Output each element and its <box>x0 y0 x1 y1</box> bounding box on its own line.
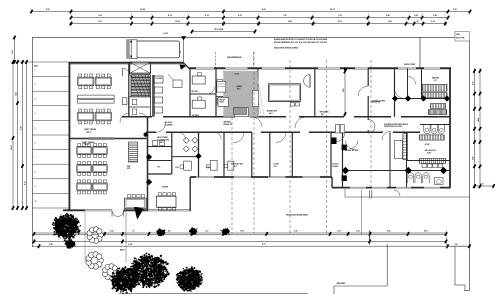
svg-text:3.48: 3.48 <box>49 243 52 246</box>
terrace connector <box>344 189 346 197</box>
dimension vertical top-left <box>12 36 15 64</box>
door arc office top right <box>122 68 130 76</box>
svg-text:58.2: 58.2 <box>160 142 163 144</box>
wall lobby right <box>257 68 259 117</box>
shrub S3 <box>220 228 230 235</box>
svg-text:INT RM 1: INT RM 1 <box>192 91 199 93</box>
wall right rooms v 407 <box>407 68 409 98</box>
label retail store <box>345 149 359 152</box>
svg-text:12.7: 12.7 <box>434 80 437 82</box>
window gap left wall <box>132 62 149 64</box>
board room table <box>268 84 300 106</box>
label specimen <box>320 112 330 117</box>
svg-text:MEET TEAMS: MEET TEAMS <box>84 128 97 131</box>
wall toilets h 170 <box>343 170 451 172</box>
entrance canopy edges dashed <box>216 52 254 69</box>
svg-text:6: 6 <box>35 142 36 144</box>
label specimen shelf corridor <box>384 124 409 128</box>
wall toilets h 160 <box>407 160 451 162</box>
svg-text:4.75: 4.75 <box>424 230 427 233</box>
svg-text:OFF 3: OFF 3 <box>84 144 89 146</box>
svg-text:2.35: 2.35 <box>356 231 359 233</box>
windows bottom right wall <box>350 187 440 188</box>
wall meet east <box>189 177 191 211</box>
svg-text:CLASSRM: CLASSRM <box>165 124 174 127</box>
label retail store upper <box>373 100 386 103</box>
grid dashed verticals <box>232 52 371 233</box>
svg-text:RETAIL STORE: RETAIL STORE <box>373 100 386 103</box>
door gap media divider <box>367 86 369 96</box>
svg-text:6.95: 6.95 <box>294 231 297 233</box>
site boundary left <box>31 37 33 247</box>
svg-text:1.07: 1.07 <box>205 231 208 233</box>
black column <box>342 175 347 181</box>
svg-text:14.63: 14.63 <box>477 118 480 122</box>
svg-text:INT RM 2: INT RM 2 <box>192 115 199 117</box>
meeting room tables <box>77 144 107 194</box>
door arc int rm <box>208 87 215 94</box>
windows top wall <box>196 68 440 69</box>
site boundary right bottom tick <box>464 290 470 292</box>
svg-text:1.50: 1.50 <box>12 51 14 54</box>
flipchart table <box>125 195 147 209</box>
right small dim <box>473 183 494 188</box>
path line x85 <box>84 210 86 262</box>
svg-text:SPECIMEN STORE: SPECIMEN STORE <box>423 116 437 118</box>
wall left exterior inner <box>70 64 72 210</box>
wall office-meet divider <box>69 138 147 140</box>
door arc right room <box>395 88 405 98</box>
shelf band 1 <box>422 84 447 91</box>
doors gaps W2 <box>156 131 393 133</box>
label board rm <box>267 110 277 116</box>
meeting table 8 <box>157 193 177 211</box>
closet right room <box>395 141 403 159</box>
wall wc h 147 <box>148 146 172 148</box>
black column <box>342 145 347 151</box>
wall lower v 342 <box>342 132 344 187</box>
svg-text:1.35: 1.35 <box>337 231 340 233</box>
riser box 1 <box>336 125 340 134</box>
wall int rooms divider <box>190 93 216 95</box>
svg-text:ROOM DRAWING VDL ZUL ICH 100 D: ROOM DRAWING VDL ZUL ICH 100 DWI GBR XCV… <box>274 41 328 44</box>
path line x126 <box>125 209 127 263</box>
label consult rm <box>231 164 243 169</box>
truck <box>127 40 182 59</box>
wall top main <box>189 67 451 69</box>
svg-text:GB LUNCH RM: GB LUNCH RM <box>425 150 437 152</box>
svg-text:INDICATED VENUE GBWS: INDICATED VENUE GBWS <box>274 46 299 49</box>
svg-text:2.5: 2.5 <box>180 51 182 53</box>
hatched sill band <box>88 137 114 140</box>
wall right rooms v 421 <box>421 68 423 98</box>
svg-text:4.70: 4.70 <box>262 243 265 246</box>
wall step entrance <box>184 63 190 69</box>
shrub S1 <box>156 228 165 236</box>
svg-text:4: 4 <box>35 112 36 115</box>
svg-text:CLASSROOM: CLASSROOM <box>157 139 169 142</box>
svg-text:CONS: CONS <box>206 167 210 169</box>
label classroom <box>157 137 169 144</box>
corridor diamond 1 <box>146 154 152 160</box>
tree T1 trunk <box>65 239 76 249</box>
boxes under sink <box>422 164 443 168</box>
wall spine upper <box>152 75 155 117</box>
toilet stalls row3 <box>424 124 445 134</box>
svg-text:FLR 2: FLR 2 <box>427 152 431 154</box>
svg-text:7.08: 7.08 <box>240 231 243 233</box>
elevator with X <box>130 62 151 73</box>
wall lower v 292 <box>291 132 293 177</box>
tall tick x369 <box>369 231 371 245</box>
svg-text:7.88: 7.88 <box>16 93 18 96</box>
bottom right step h <box>455 284 465 286</box>
door gap bottom left <box>112 209 124 211</box>
svg-text:4.9: 4.9 <box>168 230 170 233</box>
room2 desk <box>184 161 192 170</box>
notes text block <box>274 38 328 49</box>
bottom right step v <box>454 246 456 285</box>
label meet 2 <box>82 141 95 146</box>
label lunch <box>425 150 437 154</box>
left vertical dimensions <box>10 60 32 210</box>
door arc right room2 <box>408 76 416 84</box>
flower tree F1 <box>87 227 103 244</box>
svg-text:2.50: 2.50 <box>110 231 113 233</box>
svg-text:GB ENTRANCE: GB ENTRANCE <box>227 56 242 59</box>
label meet teams <box>84 128 97 134</box>
wall bottom left long <box>63 209 191 211</box>
lobby shaded <box>217 71 264 117</box>
wall room divider x128 <box>128 62 130 117</box>
black box corridor <box>332 138 337 145</box>
wall junction blob <box>440 167 447 174</box>
meet4 chairs room1 <box>183 137 198 152</box>
wall right exterior <box>449 68 451 187</box>
svg-text:19.97 VIDE: 19.97 VIDE <box>214 29 224 31</box>
stair2 strip <box>129 142 138 162</box>
wall consult h 156 <box>172 156 199 158</box>
svg-text:KNOWLEDGE WALKWAY: KNOWLEDGE WALKWAY <box>286 213 309 216</box>
corridor junction blob <box>144 133 148 137</box>
outside sign <box>173 80 182 88</box>
door arcs set <box>120 113 400 196</box>
svg-text:RECEP 87: RECEP 87 <box>224 124 232 126</box>
wall step right <box>331 177 333 188</box>
wall int rooms west <box>189 69 191 117</box>
svg-text:8: 8 <box>35 172 36 174</box>
corridor double door arcs <box>368 120 375 127</box>
shelf band 2 <box>422 93 447 98</box>
wall bottom center <box>190 176 332 178</box>
sink row <box>420 158 446 163</box>
svg-text:10: 10 <box>35 201 37 203</box>
room4 desk <box>228 161 234 170</box>
svg-text:WALKWAY: WALKWAY <box>337 282 347 285</box>
grid bubbles top wall <box>344 68 347 71</box>
svg-text:7.6: 7.6 <box>132 231 134 233</box>
interview rooms desks <box>192 73 206 117</box>
wall consult v 224 <box>223 132 225 177</box>
site boundary top <box>32 36 455 38</box>
wall media divider <box>367 68 369 117</box>
svg-text:40.2: 40.2 <box>269 112 272 115</box>
dimension line top-1 <box>30 8 471 14</box>
svg-text:14.63: 14.63 <box>10 146 13 150</box>
office tables row B <box>78 95 115 103</box>
windows bottom left wall <box>85 210 189 211</box>
diamonds y98 <box>392 95 450 101</box>
strip wall y96 <box>216 96 224 98</box>
svg-text:STORE: STORE <box>162 187 169 189</box>
tree T2 <box>110 266 139 294</box>
hatch band wc <box>420 135 445 140</box>
strip fixture 2 <box>217 98 223 104</box>
svg-text:ASSES AND EXISTING TO ASSIST I: ASSES AND EXISTING TO ASSIST IN THE GB F… <box>274 38 328 41</box>
strip fixture 1 <box>217 80 223 88</box>
counter dark <box>234 108 247 115</box>
tree T1 <box>52 213 81 241</box>
exterior double door arc L <box>112 211 118 217</box>
svg-text:45.2: 45.2 <box>237 88 240 91</box>
section arrow bottom <box>134 207 144 220</box>
svg-text:11.95: 11.95 <box>128 244 132 246</box>
wall lower v 390 <box>389 132 391 187</box>
wall media right <box>394 68 396 117</box>
wall corridor spine <box>147 117 149 211</box>
flower tree F3 <box>103 264 119 281</box>
svg-text:SPECIMEN STORE SHELF BENCH: SPECIMEN STORE SHELF BENCH <box>384 124 409 126</box>
exterior double door arc R <box>118 211 124 217</box>
media room vertical dim <box>342 68 346 117</box>
label touch down <box>332 164 339 169</box>
wall right rooms h 98 <box>395 98 451 100</box>
dimension line top-3 <box>70 20 447 26</box>
svg-text:2F WC: 2F WC <box>425 144 431 146</box>
svg-text:12.1: 12.1 <box>273 166 276 168</box>
line x361 <box>360 190 362 234</box>
wall wc h 174 <box>148 173 172 175</box>
wall wc h 160 <box>148 160 172 162</box>
walkway L drop <box>333 286 335 294</box>
roof overhang line right <box>419 37 421 67</box>
line x369 <box>368 190 370 199</box>
riser box 2 <box>340 125 344 134</box>
label ser ups <box>127 166 131 170</box>
board room double door <box>304 75 310 88</box>
svg-text:5: 5 <box>35 128 36 130</box>
flower tree F2 <box>86 252 104 270</box>
svg-text:5.45: 5.45 <box>472 157 475 160</box>
copy area boxes <box>154 76 163 113</box>
svg-text:5.45: 5.45 <box>342 89 345 92</box>
svg-text:3: 3 <box>35 99 36 101</box>
svg-text:1.50: 1.50 <box>454 244 457 246</box>
wall lower v 270 <box>269 132 271 177</box>
shrub S2 <box>189 227 198 235</box>
door arc media divider <box>358 86 368 96</box>
wall board-media <box>314 68 316 117</box>
walkway L horizontal <box>334 285 387 287</box>
room3 desk <box>210 160 217 170</box>
wc rooms below stair <box>129 97 151 117</box>
svg-text:4.78: 4.78 <box>472 82 475 85</box>
terrace line right <box>345 196 470 198</box>
wall junction blob <box>342 167 349 174</box>
dimension line entrance small <box>191 29 256 33</box>
bottom dimension line A <box>33 230 447 236</box>
right vertical dims <box>472 68 482 188</box>
dim extension x447 <box>446 231 448 250</box>
bottom dimension line B <box>33 240 447 247</box>
label waiting <box>224 120 232 126</box>
wall toilets top h 124 <box>420 124 450 126</box>
tree T3 <box>130 253 170 289</box>
bottom right step v2 <box>464 285 466 291</box>
radiator right wall office <box>122 98 127 105</box>
svg-text:WORK STORE: WORK STORE <box>404 64 416 66</box>
wall top left block <box>69 62 184 64</box>
bottom dimension line C <box>32 243 470 248</box>
label film classrm <box>165 121 174 126</box>
gate post 2 <box>371 190 373 199</box>
windows bottom center wall <box>196 177 320 178</box>
wc strip boxes <box>153 141 158 146</box>
wall junction blob <box>405 167 412 174</box>
corridor double door wall <box>367 117 369 120</box>
shelf band 4 <box>428 110 446 115</box>
diamond wall198 <box>195 153 201 159</box>
svg-text:9.12: 9.12 <box>25 182 27 185</box>
svg-text:4.50: 4.50 <box>387 230 390 233</box>
walkway L vertical <box>386 244 388 286</box>
wall lower v 406 <box>406 132 408 187</box>
dimension extension lines top <box>71 13 445 27</box>
parking strip <box>32 62 68 208</box>
wall corridor south W2 <box>146 131 420 133</box>
wall lower v 331 <box>330 132 332 177</box>
wall wc left v 171 <box>171 132 173 174</box>
svg-text:9: 9 <box>35 186 36 188</box>
doors gaps W1 <box>152 116 401 118</box>
svg-text:OFF 2: OFF 2 <box>86 132 91 134</box>
svg-text:DOWN: DOWN <box>332 166 338 168</box>
wall left exterior <box>68 62 70 211</box>
wall bottom right block <box>332 187 451 189</box>
wall x216 <box>215 68 217 117</box>
tree T4 <box>176 266 203 292</box>
svg-text:5.45: 5.45 <box>20 127 23 130</box>
svg-text:ROOF TER: ROOF TER <box>456 38 465 40</box>
bottom site line <box>119 293 308 295</box>
stair block <box>131 75 151 97</box>
shelf band 3 <box>431 104 446 109</box>
office tables row C <box>78 109 112 124</box>
wall lower v 252 <box>251 132 253 177</box>
svg-text:RETAIL STORE: RETAIL STORE <box>345 149 359 152</box>
roof terrace note box <box>455 32 470 42</box>
office tables row A <box>78 74 112 89</box>
wall consult v 198 <box>198 132 200 177</box>
svg-text:1: 1 <box>35 69 36 71</box>
door arc room3 <box>214 132 221 139</box>
site boundary right vertical <box>469 41 471 291</box>
corridor diamond 2 <box>146 179 152 185</box>
dimension line top-2 <box>70 14 449 20</box>
urinals <box>407 173 443 185</box>
section marker A <box>180 36 187 70</box>
wall top left block inner <box>69 63 184 65</box>
svg-text:7: 7 <box>35 157 36 159</box>
svg-text:2: 2 <box>35 84 36 86</box>
ladder shaft <box>403 134 408 160</box>
label cons <box>273 164 279 169</box>
door arc room1 <box>178 132 185 139</box>
wall corridor north W1 <box>122 116 450 118</box>
